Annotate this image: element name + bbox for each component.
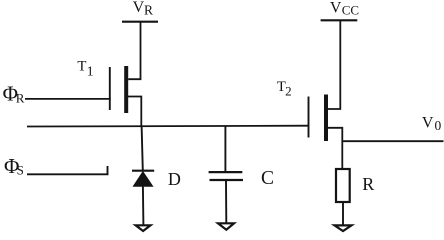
svg-text:V: V: [330, 0, 342, 17]
wire bus to diode D anode: [142, 126, 143, 171]
svg-text:S: S: [17, 163, 24, 178]
svg-text:R: R: [144, 3, 153, 18]
wire diode D to ground: [142, 186, 145, 225]
wire Phi_R to T1 gate: [25, 98, 111, 100]
wire V_R bar to T1 drain: [128, 22, 140, 79]
node V_R label: [133, 0, 153, 18]
node V_CC label: [330, 0, 359, 18]
transistor T2 gate line: [308, 97, 310, 138]
diode D triangle: [133, 172, 152, 187]
svg-text:0: 0: [435, 118, 442, 133]
wire capacitor C to ground: [225, 181, 227, 223]
diode D cathode bar: [132, 170, 154, 172]
svg-text:CC: CC: [342, 3, 359, 18]
svg-text:C: C: [261, 168, 274, 189]
wire T2 source tap: [328, 128, 342, 169]
capacitor C bottom plate: [210, 179, 244, 181]
power rail V_CC terminal bar: [321, 19, 358, 21]
svg-text:R: R: [16, 91, 25, 106]
svg-text:1: 1: [87, 64, 94, 79]
node V_0 label: [422, 114, 442, 133]
ground under resistor R: [335, 225, 352, 231]
node Phi_S label: [4, 154, 24, 178]
svg-text:R: R: [362, 174, 374, 194]
transistor T2 label: [277, 79, 292, 98]
transistor T2 channel bar: [324, 95, 328, 142]
svg-text:V: V: [133, 0, 145, 16]
ground under diode D: [136, 225, 151, 231]
transistor T1 channel bar: [124, 66, 128, 113]
svg-text:D: D: [168, 169, 181, 189]
wire resistor R to ground: [342, 202, 344, 225]
wire main bus node: [27, 125, 309, 128]
transistor T1 label: [77, 59, 93, 80]
wire bus to capacitor C: [224, 126, 226, 172]
wire T1 source tap: [128, 97, 141, 127]
ground under capacitor C: [218, 223, 234, 229]
power rail V_R terminal bar: [122, 21, 158, 23]
wire output node to V_0: [342, 140, 443, 142]
resistor R body: [336, 169, 350, 202]
wire Phi_S stub with end hook: [27, 166, 108, 174]
node Phi_R label: [3, 82, 25, 106]
capacitor C top plate: [209, 171, 243, 173]
svg-text:T: T: [77, 59, 86, 75]
wire T2 drain to V_CC: [328, 20, 340, 109]
svg-text:V: V: [422, 114, 434, 131]
transistor T1 gate line: [109, 67, 111, 110]
svg-text:2: 2: [285, 83, 292, 98]
